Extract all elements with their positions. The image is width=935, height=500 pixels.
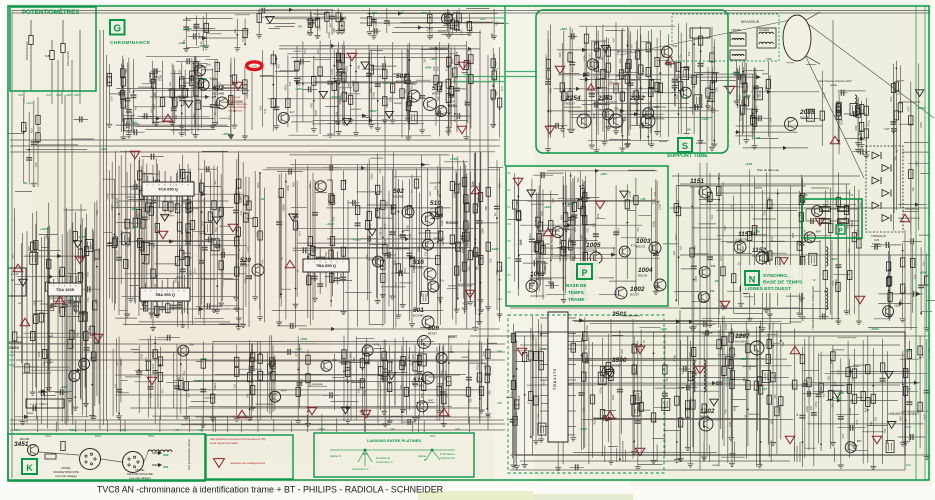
svg-text:47n: 47n	[161, 388, 165, 393]
svg-text:10k: 10k	[497, 183, 501, 188]
svg-text:22n: 22n	[197, 244, 201, 249]
svg-text:B47: B47	[791, 232, 795, 238]
svg-text:4u7: 4u7	[328, 22, 332, 27]
svg-text:R47: R47	[241, 36, 245, 42]
svg-text:B47: B47	[816, 229, 822, 233]
svg-text:+22V: +22V	[580, 427, 587, 431]
svg-text:47n: 47n	[719, 346, 723, 351]
svg-text:P1: P1	[508, 188, 512, 192]
svg-text:+33V: +33V	[222, 132, 229, 136]
svg-text:3n3: 3n3	[113, 383, 117, 388]
svg-text:C08: C08	[854, 125, 858, 131]
svg-text:1n5: 1n5	[387, 21, 391, 26]
svg-text:B003: B003	[148, 434, 155, 438]
svg-text:820: 820	[110, 194, 114, 199]
svg-text:LINEARITE TRAME: LINEARITE TRAME	[550, 234, 554, 258]
svg-text:2k2: 2k2	[186, 392, 190, 397]
svg-text:1u: 1u	[797, 213, 801, 217]
svg-text:1u: 1u	[525, 354, 529, 358]
svg-text:1u: 1u	[410, 189, 414, 193]
svg-text:33k: 33k	[894, 156, 898, 161]
svg-text:47n: 47n	[190, 209, 194, 214]
svg-text:1n5: 1n5	[754, 105, 758, 110]
svg-text:BC557: BC557	[612, 364, 622, 368]
svg-text:56k: 56k	[245, 393, 249, 398]
svg-text:+6V8: +6V8	[745, 162, 752, 166]
svg-text:680: 680	[182, 198, 186, 203]
svg-text:+6V8: +6V8	[130, 120, 137, 124]
svg-text:BD135: BD135	[598, 102, 608, 106]
svg-text:GA3: GA3	[46, 93, 52, 97]
svg-text:470p: 470p	[95, 209, 99, 216]
svg-text:BD233: BD233	[636, 245, 646, 249]
svg-text:R81: R81	[439, 382, 443, 388]
svg-text:820: 820	[143, 256, 147, 261]
svg-text:N22: N22	[906, 463, 911, 467]
svg-text:BD234: BD234	[638, 274, 648, 278]
svg-text:+26V: +26V	[61, 385, 68, 389]
svg-text:3n3: 3n3	[258, 105, 262, 110]
svg-text:+6V8: +6V8	[370, 11, 377, 15]
svg-text:C41: C41	[823, 92, 827, 98]
svg-text:BD138: BD138	[630, 102, 640, 106]
svg-text:C08: C08	[314, 110, 318, 116]
svg-text:1n5: 1n5	[515, 199, 519, 204]
svg-text:1k8: 1k8	[475, 208, 479, 213]
svg-text:1k8: 1k8	[342, 29, 346, 34]
svg-text:+26V: +26V	[430, 57, 437, 61]
svg-text:GE2: GE2	[390, 427, 396, 431]
svg-text:B: B	[424, 458, 426, 462]
svg-text:22n: 22n	[193, 268, 197, 273]
svg-text:120p: 120p	[327, 31, 331, 38]
svg-text:+24V: +24V	[660, 327, 667, 331]
svg-text:TRAME: TRAME	[568, 297, 584, 302]
svg-text:8k2: 8k2	[863, 407, 867, 412]
svg-text:BASE DE: BASE DE	[566, 283, 586, 288]
svg-text:33k: 33k	[710, 289, 715, 293]
svg-text:820: 820	[539, 211, 543, 216]
svg-text:470p: 470p	[673, 354, 677, 361]
svg-text:+11V5: +11V5	[752, 136, 761, 140]
svg-text:1n5: 1n5	[233, 383, 237, 388]
svg-text:470p: 470p	[867, 120, 871, 127]
svg-text:BC338: BC338	[20, 437, 30, 441]
svg-text:B003: B003	[120, 428, 127, 432]
svg-text:820: 820	[654, 105, 659, 109]
svg-text:4u7: 4u7	[339, 75, 343, 80]
svg-text:1k8: 1k8	[752, 95, 756, 100]
svg-text:3n3: 3n3	[679, 245, 683, 250]
svg-text:BC548C: BC548C	[413, 314, 425, 318]
svg-text:33k: 33k	[288, 81, 292, 86]
svg-text:22n: 22n	[921, 261, 925, 266]
svg-text:3501: 3501	[612, 311, 627, 318]
svg-text:8k2: 8k2	[202, 227, 206, 232]
svg-text:uniforme 22: uniforme 22	[440, 456, 455, 460]
svg-text:47n: 47n	[636, 227, 640, 232]
svg-text:1u: 1u	[688, 397, 692, 401]
svg-text:10k: 10k	[489, 258, 493, 263]
svg-text:100k: 100k	[903, 286, 907, 293]
svg-text:3n3: 3n3	[445, 392, 449, 397]
svg-text:33k: 33k	[444, 89, 448, 94]
svg-text:ROUGE: ROUGE	[446, 221, 459, 225]
svg-text:15k: 15k	[732, 406, 736, 411]
svg-text:P3: P3	[508, 273, 512, 277]
svg-text:GF3: GF3	[18, 93, 24, 97]
svg-text:100k: 100k	[351, 80, 355, 87]
svg-text:T D A 1 1 7 0: T D A 1 1 7 0	[553, 369, 557, 390]
svg-text:22n: 22n	[618, 58, 622, 63]
svg-text:4u7: 4u7	[237, 247, 241, 252]
svg-text:10k: 10k	[874, 416, 878, 421]
svg-text:3n3: 3n3	[719, 256, 723, 261]
svg-text:1k8: 1k8	[339, 273, 343, 278]
svg-text:56k: 56k	[883, 428, 887, 433]
svg-text:470p: 470p	[598, 387, 602, 394]
svg-text:470p: 470p	[245, 28, 249, 35]
svg-text:R22: R22	[570, 66, 574, 72]
svg-text:R81: R81	[638, 74, 642, 80]
svg-text:3n3: 3n3	[445, 66, 449, 71]
svg-text:+190V: +190V	[330, 95, 339, 99]
svg-text:10k: 10k	[834, 114, 838, 119]
svg-text:820: 820	[531, 335, 535, 340]
svg-text:820: 820	[156, 75, 160, 80]
svg-text:10k: 10k	[80, 368, 85, 372]
svg-text:47n: 47n	[308, 183, 312, 188]
svg-text:1n5: 1n5	[110, 96, 114, 101]
svg-text:10k: 10k	[632, 196, 636, 201]
svg-text:3n3: 3n3	[213, 382, 217, 387]
svg-text:+24V: +24V	[178, 41, 185, 45]
svg-text:-9V: -9V	[400, 10, 405, 14]
svg-text:4u7: 4u7	[841, 433, 845, 438]
svg-text:R47: R47	[338, 28, 342, 34]
svg-text:10k: 10k	[607, 72, 611, 77]
svg-text:33k: 33k	[911, 186, 915, 191]
svg-text:+12V: +12V	[251, 65, 257, 68]
svg-text:4u7: 4u7	[175, 101, 179, 106]
svg-text:B47: B47	[480, 390, 484, 396]
svg-text:10k: 10k	[576, 177, 580, 182]
svg-text:3n3: 3n3	[87, 326, 91, 331]
svg-text:Plan de faisceau: Plan de faisceau	[757, 168, 780, 172]
svg-text:N8: N8	[850, 193, 854, 197]
svg-text:R47: R47	[855, 419, 859, 425]
svg-text:POTENTIOMÈTRES: POTENTIOMÈTRES	[22, 8, 79, 16]
svg-text:10k: 10k	[748, 365, 752, 370]
svg-text:33k: 33k	[831, 403, 835, 408]
svg-text:ENTREE: ENTREE	[9, 341, 22, 345]
svg-text:3n3: 3n3	[239, 210, 243, 215]
svg-text:820: 820	[440, 237, 444, 242]
svg-text:10k: 10k	[399, 384, 403, 389]
svg-text:C41: C41	[195, 98, 199, 104]
svg-text:R81: R81	[586, 227, 590, 233]
svg-text:820: 820	[85, 272, 89, 277]
svg-text:LIAISONS ENTRE PLATINES: LIAISONS ENTRE PLATINES	[367, 438, 421, 443]
svg-text:BF337: BF337	[240, 264, 249, 268]
svg-text:+6V8: +6V8	[681, 96, 688, 100]
svg-text:100k: 100k	[417, 245, 421, 252]
svg-text:2k2: 2k2	[475, 377, 479, 382]
svg-text:C08: C08	[45, 276, 49, 282]
svg-text:B003: B003	[95, 434, 102, 438]
svg-text:1u: 1u	[156, 364, 160, 368]
svg-text:1u: 1u	[795, 413, 799, 417]
svg-text:C41: C41	[476, 197, 480, 203]
svg-text:820: 820	[38, 126, 42, 131]
svg-text:K87: K87	[175, 428, 180, 432]
svg-text:R47: R47	[148, 71, 152, 77]
svg-text:R47: R47	[352, 357, 356, 363]
svg-text:33k: 33k	[250, 378, 254, 383]
svg-text:TVK76: TVK76	[872, 242, 881, 246]
svg-text:R81: R81	[332, 27, 336, 33]
svg-text:8k2: 8k2	[171, 96, 175, 101]
svg-text:15k: 15k	[423, 251, 427, 256]
svg-text:47n: 47n	[86, 297, 90, 302]
svg-text:4u7: 4u7	[894, 148, 898, 153]
svg-text:56k: 56k	[334, 111, 338, 116]
svg-text:56k: 56k	[763, 210, 767, 215]
svg-text:22n: 22n	[332, 358, 337, 362]
svg-text:BC548C: BC548C	[413, 266, 425, 270]
svg-text:33k: 33k	[536, 413, 540, 418]
svg-text:2k2: 2k2	[179, 246, 183, 251]
svg-text:22n: 22n	[511, 419, 515, 424]
svg-text:4u7: 4u7	[750, 203, 754, 208]
svg-text:470p: 470p	[374, 342, 381, 346]
svg-text:1k8: 1k8	[809, 405, 813, 410]
svg-text:R81: R81	[255, 231, 259, 237]
svg-text:33k: 33k	[430, 34, 434, 39]
svg-text:P6: P6	[508, 239, 512, 243]
svg-text:LIGNES EST.OUEST: LIGNES EST.OUEST	[745, 286, 791, 292]
svg-text:C08: C08	[728, 421, 732, 427]
svg-text:N: N	[749, 275, 756, 285]
svg-text:C41: C41	[588, 53, 592, 59]
svg-text:680: 680	[914, 161, 918, 166]
svg-text:120p: 120p	[367, 56, 371, 63]
svg-text:R81: R81	[681, 86, 685, 92]
svg-text:R22: R22	[592, 73, 596, 79]
svg-text:470p: 470p	[814, 401, 818, 408]
svg-text:BC548C: BC548C	[413, 384, 425, 388]
svg-text:B47: B47	[857, 439, 863, 443]
svg-text:22n: 22n	[348, 353, 352, 358]
svg-text:100k: 100k	[519, 239, 523, 246]
svg-text:BASE DE TEMPS: BASE DE TEMPS	[763, 280, 803, 286]
svg-text:BC548C: BC548C	[393, 195, 405, 199]
svg-text:+190V: +190V	[183, 27, 192, 31]
svg-text:C08: C08	[490, 33, 494, 39]
svg-text:100k: 100k	[192, 23, 196, 30]
svg-text:+V8: +V8	[860, 128, 866, 132]
svg-text:4u7: 4u7	[453, 11, 458, 15]
svg-text:8k2: 8k2	[182, 370, 186, 375]
svg-text:33k: 33k	[614, 106, 619, 110]
svg-text:1n5: 1n5	[773, 375, 777, 380]
svg-text:K: K	[26, 463, 33, 473]
svg-text:8k2: 8k2	[593, 419, 597, 424]
svg-text:+V8: +V8	[130, 226, 136, 230]
svg-text:4u7: 4u7	[290, 110, 295, 114]
svg-text:820: 820	[420, 393, 424, 398]
svg-text:15k: 15k	[862, 108, 866, 113]
svg-text:+V8: +V8	[540, 347, 546, 351]
svg-text:56k: 56k	[34, 162, 38, 167]
svg-text:120p: 120p	[362, 390, 366, 397]
svg-text:S: S	[682, 141, 688, 151]
svg-text:C41: C41	[712, 46, 716, 52]
svg-text:2k2: 2k2	[584, 345, 588, 350]
svg-text:8k2: 8k2	[467, 266, 471, 271]
svg-text:R47: R47	[444, 370, 448, 376]
svg-text:R47: R47	[178, 255, 182, 261]
svg-text:GH2: GH2	[480, 17, 486, 21]
svg-text:120p: 120p	[675, 75, 679, 82]
svg-text:THT: THT	[766, 57, 772, 61]
svg-text:4u7: 4u7	[277, 63, 281, 68]
svg-text:1k8: 1k8	[539, 237, 543, 242]
svg-text:R81: R81	[457, 21, 461, 27]
svg-text:3n3: 3n3	[147, 215, 151, 220]
svg-text:820: 820	[739, 111, 743, 116]
svg-text:4u7: 4u7	[612, 37, 616, 42]
svg-text:820: 820	[517, 395, 521, 400]
svg-text:100k: 100k	[345, 65, 349, 72]
svg-text:680: 680	[282, 203, 286, 208]
svg-text:33k: 33k	[711, 264, 716, 268]
svg-text:1n5: 1n5	[681, 369, 685, 374]
svg-text:33k: 33k	[770, 236, 774, 241]
svg-text:R22: R22	[119, 360, 123, 366]
svg-text:R81: R81	[310, 102, 314, 108]
svg-text:820: 820	[306, 30, 310, 35]
svg-text:100k: 100k	[448, 350, 455, 354]
svg-text:L.A.R. 130ns: L.A.R. 130ns	[30, 402, 48, 406]
svg-text:2k2: 2k2	[237, 368, 241, 373]
svg-text:GE3#: GE3#	[318, 427, 325, 431]
svg-text:47n: 47n	[403, 88, 407, 93]
svg-text:33k: 33k	[673, 44, 678, 48]
svg-text:BD137: BD137	[566, 102, 576, 106]
svg-text:680: 680	[617, 72, 621, 77]
svg-text:47n: 47n	[294, 351, 298, 356]
svg-text:C08: C08	[919, 122, 923, 128]
svg-text:1k8: 1k8	[769, 420, 773, 425]
svg-text:10k: 10k	[869, 421, 873, 426]
svg-text:BC548C: BC548C	[396, 80, 408, 84]
svg-text:GE3: GE3	[497, 349, 503, 353]
svg-text:(vue côté cablage): (vue côté cablage)	[55, 474, 76, 478]
svg-text:B47: B47	[564, 224, 570, 228]
svg-text:680: 680	[850, 398, 854, 403]
svg-text:SYNCHRO.: SYNCHRO.	[763, 273, 788, 279]
svg-text:22n: 22n	[213, 110, 217, 115]
svg-text:680: 680	[558, 52, 562, 57]
svg-text:470p: 470p	[440, 370, 444, 377]
svg-text:22n: 22n	[679, 54, 683, 59]
svg-text:R47: R47	[152, 104, 156, 110]
svg-text:+12V: +12V	[834, 396, 841, 400]
svg-text:P2: P2	[508, 171, 512, 175]
svg-text:100k: 100k	[453, 77, 457, 84]
svg-text:TCA 650 Q: TCA 650 Q	[158, 187, 178, 192]
svg-text:1u: 1u	[493, 213, 497, 217]
svg-text:LINEARITE LIGNES: LINEARITE LIGNES	[888, 412, 917, 416]
svg-text:1n5: 1n5	[307, 22, 311, 27]
svg-text:COULEUR: COULEUR	[66, 50, 70, 66]
svg-text:GB3: GB3	[9, 363, 15, 367]
svg-text:R47: R47	[723, 225, 727, 231]
svg-text:47n: 47n	[665, 377, 669, 382]
svg-text:1n5: 1n5	[833, 381, 837, 386]
svg-text:3n3: 3n3	[246, 246, 250, 251]
svg-text:15k: 15k	[913, 274, 917, 279]
svg-text:VIDEO: VIDEO	[9, 346, 19, 350]
svg-text:GA3: GA3	[9, 353, 15, 357]
svg-text:+26V: +26V	[567, 202, 574, 206]
svg-text:M8: M8	[804, 193, 808, 197]
svg-text:+24V: +24V	[760, 387, 767, 391]
svg-text:R81: R81	[452, 21, 456, 27]
svg-text:R81: R81	[93, 257, 97, 263]
svg-text:1k8: 1k8	[551, 198, 555, 203]
svg-text:47n: 47n	[745, 94, 749, 99]
svg-text:47n: 47n	[177, 377, 181, 382]
svg-text:MAGNETOSCOPE: MAGNETOSCOPE	[53, 470, 79, 474]
svg-text:BF337: BF337	[428, 332, 437, 336]
svg-text:+190V: +190V	[199, 77, 208, 81]
svg-text:TBA 850 Q: TBA 850 Q	[316, 263, 336, 268]
svg-text:DEVIATEUR: DEVIATEUR	[741, 20, 760, 24]
svg-text:100k: 100k	[308, 380, 312, 387]
svg-text:R47: R47	[151, 363, 155, 369]
svg-text:100k: 100k	[105, 192, 109, 199]
svg-text:R22: R22	[720, 368, 724, 374]
svg-text:C08: C08	[694, 276, 698, 282]
svg-text:100k: 100k	[286, 184, 290, 191]
svg-text:33k: 33k	[471, 181, 475, 186]
svg-text:22n: 22n	[475, 265, 479, 270]
svg-text:+6V8: +6V8	[198, 44, 205, 48]
svg-text:3n3: 3n3	[541, 380, 545, 385]
svg-text:4u7: 4u7	[623, 116, 627, 121]
svg-text:2k2: 2k2	[233, 28, 237, 33]
svg-text:R22: R22	[29, 128, 33, 134]
svg-text:22n: 22n	[316, 49, 320, 54]
svg-text:100k: 100k	[582, 55, 586, 62]
svg-text:BF337: BF337	[430, 207, 439, 211]
svg-text:1k8: 1k8	[206, 63, 211, 67]
svg-text:N/B: N/B	[45, 54, 50, 58]
svg-text:33k: 33k	[920, 353, 924, 358]
svg-text:10k: 10k	[173, 278, 177, 283]
svg-text:47n: 47n	[260, 259, 264, 264]
svg-text:680: 680	[484, 205, 488, 210]
svg-text:22n: 22n	[123, 103, 127, 108]
svg-text:P4: P4	[508, 222, 512, 226]
svg-text:+22V: +22V	[722, 379, 729, 383]
svg-text:15k: 15k	[641, 67, 645, 72]
svg-text:+22V: +22V	[26, 101, 33, 105]
svg-text:15k: 15k	[434, 185, 438, 190]
svg-text:4u7: 4u7	[213, 180, 217, 185]
